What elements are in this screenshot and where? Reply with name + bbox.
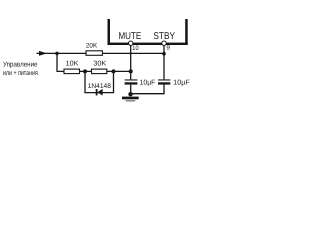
svg-text:Управление: Управление — [3, 61, 38, 68]
svg-text:20K: 20K — [86, 42, 98, 49]
svg-text:10µF: 10µF — [140, 80, 156, 87]
svg-text:10µF: 10µF — [173, 80, 190, 87]
svg-text:10K: 10K — [66, 60, 79, 67]
svg-text:MUTE: MUTE — [119, 31, 142, 42]
svg-text:30K: 30K — [93, 60, 106, 67]
svg-text:или + питания: или + питания — [3, 70, 38, 77]
svg-text:1N4148: 1N4148 — [88, 83, 111, 90]
svg-text:9: 9 — [166, 45, 170, 52]
svg-text:STBY: STBY — [153, 31, 175, 42]
svg-text:10: 10 — [132, 45, 139, 52]
